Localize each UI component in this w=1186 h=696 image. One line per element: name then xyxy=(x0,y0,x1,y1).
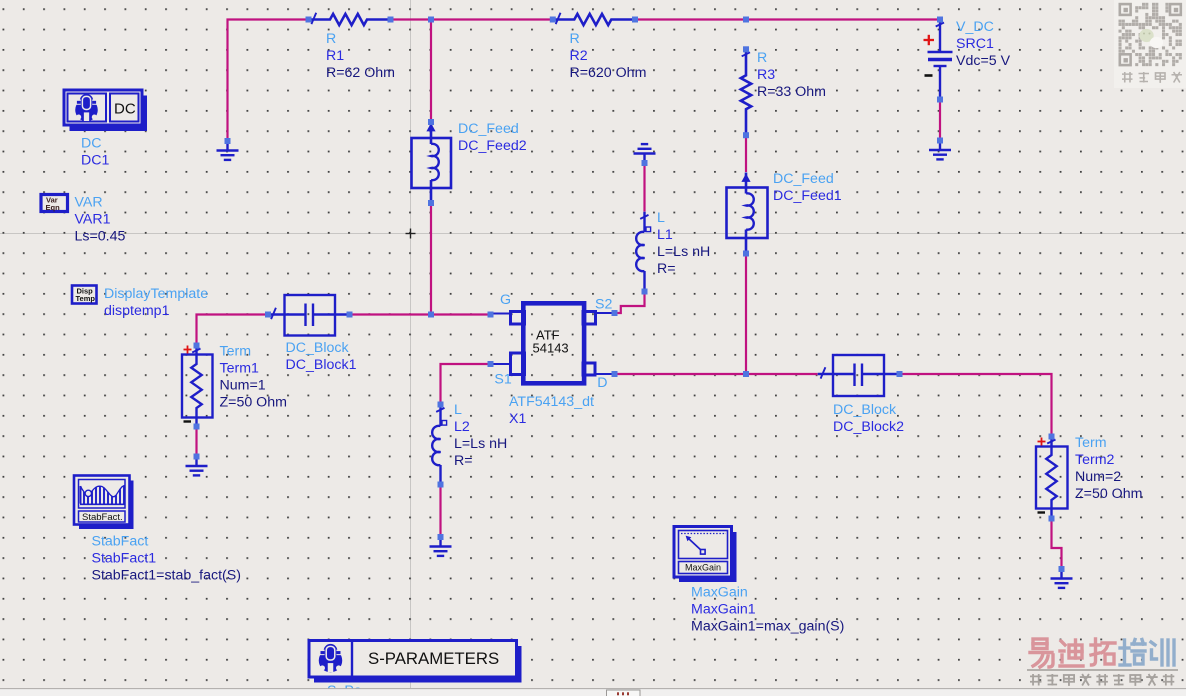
wire: Term2 minus to ground xyxy=(1052,519,1062,570)
wire: ground stub to R1 pin1 xyxy=(228,20,309,142)
Term1 resistor xyxy=(191,348,201,424)
wire: L1 to ground node xyxy=(643,163,645,212)
wire: L2 to ground xyxy=(439,485,441,538)
wire: DC_Block1 to gate G xyxy=(350,313,491,315)
svg-text:MaxGain: MaxGain xyxy=(691,585,748,601)
label Term2 xyxy=(1075,435,1142,502)
ground (Term1) xyxy=(186,457,208,476)
X1 device text xyxy=(533,328,569,356)
node L2 top xyxy=(438,402,444,408)
svg-text:StabFact1: StabFact1 xyxy=(92,551,157,567)
svg-text:L: L xyxy=(657,210,665,226)
label DC_Block2 xyxy=(833,402,904,435)
svg-text:DC_Block2: DC_Block2 xyxy=(833,419,904,435)
resistor R2 symbol xyxy=(553,14,635,25)
svg-text:R=: R= xyxy=(657,261,676,277)
Term1 pin1 slash xyxy=(192,349,200,353)
label SRC1 xyxy=(956,19,1011,69)
node R1 pin2 xyxy=(388,17,394,23)
svg-text:R: R xyxy=(757,50,767,66)
svg-text:Term2: Term2 xyxy=(1075,452,1115,468)
bottom scrollbar strip xyxy=(0,689,1186,696)
watermark logo "yi di tuo pei xun" xyxy=(1030,639,1174,667)
DC_Feed2 pin1 arrow xyxy=(426,123,435,131)
svg-text:S1: S1 xyxy=(494,372,511,388)
svg-text:L: L xyxy=(454,402,462,418)
DC block DC_Block2 symbol xyxy=(818,355,900,396)
svg-text:R=: R= xyxy=(454,453,473,469)
svg-text:VAR: VAR xyxy=(75,195,103,211)
splitter handle button xyxy=(607,690,641,696)
ground (SRC1) xyxy=(929,141,951,160)
svg-text:G: G xyxy=(500,292,511,308)
node DC_Feed2 pin2 xyxy=(428,200,434,206)
wire: S1 to L2 xyxy=(441,364,491,405)
Term1 plus sign xyxy=(184,346,192,354)
node Term1 ground xyxy=(194,454,200,460)
watermark logo underline xyxy=(1027,669,1178,671)
svg-text:VAR1: VAR1 xyxy=(75,212,111,228)
S-PARAMETERS simulation controller xyxy=(309,641,522,683)
node DC_Feed2 pin1 xyxy=(428,119,434,125)
label DC_Feed2 xyxy=(458,121,527,154)
svg-text:Z=50 Ohm: Z=50 Ohm xyxy=(220,395,287,411)
origin cross marker xyxy=(406,229,416,239)
svg-text:L=Ls nH: L=Ls nH xyxy=(454,436,507,452)
svg-text:DC: DC xyxy=(81,136,102,152)
svg-text:54143: 54143 xyxy=(533,341,569,356)
R3 pin1 slash xyxy=(742,52,750,56)
node R3 top xyxy=(743,46,749,52)
transistor X1 ATF54143 body xyxy=(491,303,617,383)
node Term2 plus xyxy=(1049,434,1055,440)
node pin S2 xyxy=(612,310,618,316)
wire: junction A to R2 xyxy=(431,18,553,20)
label DC_Block1 xyxy=(286,340,357,373)
MaxGain measurement icon xyxy=(674,527,737,583)
node SRC1 pin2 xyxy=(937,97,943,103)
wire: S2 to L1 xyxy=(615,292,645,314)
Term2 resistor xyxy=(1046,439,1056,516)
wire: DC_Block2 to Term2 xyxy=(900,374,1052,437)
wire: Term1 to DC_Block1 xyxy=(197,315,269,346)
node R3 bottom xyxy=(743,132,749,138)
node L1 ground xyxy=(642,160,648,166)
svg-text:R=620 Ohm: R=620 Ohm xyxy=(570,65,647,81)
junction B xyxy=(743,17,749,23)
svg-text:Term: Term xyxy=(220,344,252,360)
DC feed DC_Feed1 symbol xyxy=(727,173,768,254)
svg-text:R=33 Ohm: R=33 Ohm xyxy=(757,84,826,100)
svg-text:D: D xyxy=(597,375,607,391)
svg-text:L=Ls nH: L=Ls nH xyxy=(657,244,710,260)
junction A xyxy=(428,17,434,23)
svg-text:Num=1: Num=1 xyxy=(220,378,266,394)
DC simulation controller DC1 icon xyxy=(64,90,147,131)
svg-text:Vdc=5 V: Vdc=5 V xyxy=(956,53,1011,69)
wire: R2 to top junction B xyxy=(635,18,746,20)
svg-text:R1: R1 xyxy=(326,48,344,64)
svg-text:Num=2: Num=2 xyxy=(1075,469,1121,485)
svg-text:StabFact.: StabFact. xyxy=(82,512,123,523)
SRC1 pin1 slash xyxy=(936,23,944,27)
node pin G xyxy=(488,312,494,318)
svg-text:StabFact1=stab_fact(S): StabFact1=stab_fact(S) xyxy=(92,568,241,584)
node R1 pin1 xyxy=(306,17,312,23)
node SRC1 plus xyxy=(937,17,943,23)
node ground R1 xyxy=(225,138,231,144)
svg-text:DC_Feed2: DC_Feed2 xyxy=(458,138,527,154)
svg-text:DC: DC xyxy=(114,101,136,118)
label L1 xyxy=(657,210,710,277)
node L2 bottom xyxy=(438,482,444,488)
svg-text:Temp: Temp xyxy=(76,294,96,303)
DC block DC_Block1 symbol xyxy=(268,295,350,336)
svg-text:R=62 Ohm: R=62 Ohm xyxy=(326,65,395,81)
ground (above L1) xyxy=(634,144,656,163)
VAR equation block VAR1 icon xyxy=(41,195,68,213)
junction drain xyxy=(743,371,749,377)
node L2 ground xyxy=(438,534,444,540)
svg-text:S-PARAMETERS: S-PARAMETERS xyxy=(368,649,499,668)
svg-text:MaxGain: MaxGain xyxy=(685,563,721,573)
DC_Feed1 pin1 arrow xyxy=(741,174,750,182)
watermark QR code xyxy=(1114,0,1186,88)
svg-text:R: R xyxy=(326,31,336,47)
ground (L2) xyxy=(430,537,452,556)
wire: V_DC minus to ground xyxy=(939,100,941,141)
label R2 xyxy=(570,31,647,81)
label X1 xyxy=(509,394,594,427)
Term2 plus sign xyxy=(1038,438,1046,446)
Term2 pin1 slash xyxy=(1047,440,1055,444)
label DC_Feed1 xyxy=(773,171,842,204)
wire: drain D to DC_Block2 xyxy=(617,373,818,375)
svg-text:L1: L1 xyxy=(657,227,673,243)
DisplayTemplate disptemp1 icon xyxy=(72,286,97,304)
L2 pin1 slash xyxy=(436,408,444,412)
node R2 pin1 xyxy=(550,17,556,23)
svg-text:V_DC: V_DC xyxy=(956,19,994,35)
label MaxGain1 xyxy=(691,585,844,635)
resistor R1 symbol xyxy=(309,14,391,25)
label VAR1 xyxy=(75,195,126,245)
SRC1 minus sign xyxy=(925,74,933,77)
svg-text:S2: S2 xyxy=(595,297,612,313)
svg-text:DC_Feed: DC_Feed xyxy=(773,171,834,187)
node Term2 minus xyxy=(1049,516,1055,522)
resistor R2 symbol pin1 slash xyxy=(556,13,561,24)
svg-text:StabFact: StabFact xyxy=(92,534,149,550)
svg-text:DC_Block: DC_Block xyxy=(286,340,350,356)
svg-text:MaxGain1: MaxGain1 xyxy=(691,602,756,618)
svg-text:R2: R2 xyxy=(570,48,588,64)
label StabFact1 xyxy=(92,534,241,584)
node SRC1 ground xyxy=(937,138,943,144)
svg-text:ATF54143_dt: ATF54143_dt xyxy=(509,394,594,410)
wire: R1 to top junction A xyxy=(391,18,432,20)
wire: junction B to V_DC xyxy=(746,18,940,20)
node Term2 ground xyxy=(1059,566,1065,572)
label L2 xyxy=(454,402,507,469)
wire: junction A down to DC_Feed2 xyxy=(430,20,432,122)
wire: R3 to DC_Feed1 xyxy=(745,135,747,172)
svg-text:DC_Block: DC_Block xyxy=(833,402,897,418)
svg-text:DisplayTemplate: DisplayTemplate xyxy=(104,286,208,302)
node R2 pin2 xyxy=(632,17,638,23)
inductor L2 symbol xyxy=(441,405,447,485)
svg-text:Term: Term xyxy=(1075,435,1107,451)
label Term1 xyxy=(220,344,287,411)
L1 pin1 slash xyxy=(640,215,648,219)
StabFact measurement icon xyxy=(74,476,134,530)
node L1 bottom xyxy=(642,289,648,295)
wire: DC_Feed1 to drain junction xyxy=(745,254,747,375)
watermark text "wechat contact" under QR xyxy=(1122,72,1182,83)
svg-text:X1: X1 xyxy=(509,411,526,427)
node pin S1 xyxy=(488,361,494,367)
svg-text:R: R xyxy=(570,31,580,47)
svg-text:Term1: Term1 xyxy=(220,361,260,377)
Term2 minus sign xyxy=(1038,511,1046,513)
ground (Term2) xyxy=(1051,569,1073,588)
wire: Term1 minus to ground xyxy=(195,427,197,457)
DC voltage source SRC1 xyxy=(928,20,953,100)
svg-text:disptemp1: disptemp1 xyxy=(104,303,170,319)
inductor L1 symbol xyxy=(645,212,651,292)
label disptemp1 xyxy=(104,286,208,319)
svg-text:R3: R3 xyxy=(757,67,775,83)
SRC1 plus sign xyxy=(924,35,935,45)
node Term1 minus xyxy=(194,424,200,430)
node Term1 plus xyxy=(194,343,200,349)
node pin D xyxy=(612,371,618,377)
DC_Block2 pin1 slash xyxy=(821,367,826,378)
svg-text:DC_Block1: DC_Block1 xyxy=(286,357,357,373)
svg-text:Eqn: Eqn xyxy=(46,203,61,212)
svg-text:Z=50 Ohm: Z=50 Ohm xyxy=(1075,486,1142,502)
wire: DC_Feed2 to gate junction xyxy=(430,203,432,315)
node DC_Block1 pin2 xyxy=(347,312,353,318)
label R3 xyxy=(757,50,826,100)
svg-text:DC_Feed: DC_Feed xyxy=(458,121,519,137)
label R1 xyxy=(326,31,395,81)
junction gate xyxy=(428,312,434,318)
svg-text:SRC1: SRC1 xyxy=(956,36,994,52)
svg-text:L2: L2 xyxy=(454,419,470,435)
DC_Block1 pin1 slash xyxy=(271,308,276,319)
node DC_Block2 pin2 xyxy=(897,371,903,377)
svg-text:DC1: DC1 xyxy=(81,153,109,169)
resistor R3 symbol xyxy=(741,49,751,135)
DC feed DC_Feed2 symbol xyxy=(412,122,452,203)
label DC1 xyxy=(81,136,109,169)
node DC_Block1 pin1 xyxy=(265,312,271,318)
Term1 minus sign xyxy=(184,420,192,422)
svg-text:MaxGain1=max_gain(S): MaxGain1=max_gain(S) xyxy=(691,619,844,635)
svg-text:Ls=0.45: Ls=0.45 xyxy=(75,229,126,245)
resistor R1 symbol pin1 slash xyxy=(311,13,316,24)
watermark subtitle xyxy=(1030,674,1174,686)
svg-text:DC_Feed1: DC_Feed1 xyxy=(773,188,842,204)
node DC_Feed1 pin2 xyxy=(743,251,749,257)
ground (R1 pin1) xyxy=(217,141,239,160)
